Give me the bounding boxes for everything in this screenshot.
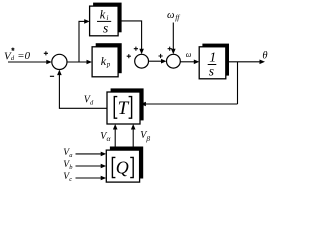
node Vc label (63, 172, 72, 183)
wire Vbeta from Q up into T bottom (131, 124, 136, 150)
node omega_ff feedforward label (167, 10, 180, 22)
svg-text:β: β (145, 134, 150, 143)
svg-text:θ: θ (262, 51, 267, 62)
block U3 1/s (integrator) (199, 44, 229, 79)
svg-text:s: s (209, 64, 214, 79)
block U2 kp (proportional gain) (92, 43, 122, 77)
summing junction S3 (167, 54, 181, 68)
node Vbeta label (140, 130, 150, 143)
node Va label (63, 148, 72, 159)
svg-text:k: k (100, 8, 106, 22)
wire feedback down from theta line (237, 62, 239, 104)
svg-text:ω: ω (186, 50, 192, 59)
plus sign at S2 left input (127, 54, 131, 58)
svg-text:s: s (103, 21, 108, 36)
wire Vd from T block left to below S1 (59, 107, 107, 109)
plus sign at S3 left input (159, 54, 163, 58)
plus sign at S2 top input (134, 47, 138, 51)
svg-text:Q: Q (116, 157, 129, 177)
block U5 [Q] (Clarke transform) (106, 147, 143, 183)
wire Valpha from Q up into T bottom (113, 124, 118, 150)
wire into ki/s block (79, 19, 90, 24)
wire S1 output to kp block with branch junction (67, 60, 92, 65)
wire branch up to integrator (78, 21, 80, 62)
wire Vc into Q block (76, 176, 107, 181)
wire input Vd* to summer S1 (8, 60, 52, 65)
wire S3 to 1/s block (180, 60, 199, 65)
node Valpha label (100, 131, 111, 143)
wire omega_ff down into summer S3 (171, 23, 176, 55)
wire Vd up into S1 bottom (minus input) (57, 70, 62, 109)
block U4 [T] (Park transform) (107, 88, 144, 124)
plus sign at S1 left input (44, 51, 48, 55)
svg-text:=: = (17, 50, 24, 62)
wire Va into Q block (76, 152, 107, 157)
wire S2 to S3 (149, 59, 167, 64)
svg-text:c: c (69, 176, 72, 183)
svg-text:a: a (69, 152, 72, 159)
wire 1/s output to theta with junction (226, 60, 265, 65)
block U1 ki/s (integral gain) (90, 3, 122, 36)
svg-text:p: p (106, 61, 111, 69)
node Vd label on feedback wire (84, 94, 94, 106)
svg-text:T: T (118, 98, 130, 119)
svg-text:0: 0 (25, 50, 31, 62)
wire Vb into Q block (76, 164, 107, 169)
wire ki/s output elbow down into summer S2 (118, 21, 144, 54)
plus sign at S3 top input (168, 47, 172, 51)
svg-text:ω: ω (167, 10, 174, 21)
node Vd* = 0 input label (4, 48, 31, 63)
node Vb label (63, 160, 73, 171)
summing junction S2 (135, 54, 149, 68)
wire feedback into T block right side (140, 102, 237, 107)
summing junction S1 (52, 54, 67, 69)
minus sign at S1 bottom input (50, 75, 54, 77)
